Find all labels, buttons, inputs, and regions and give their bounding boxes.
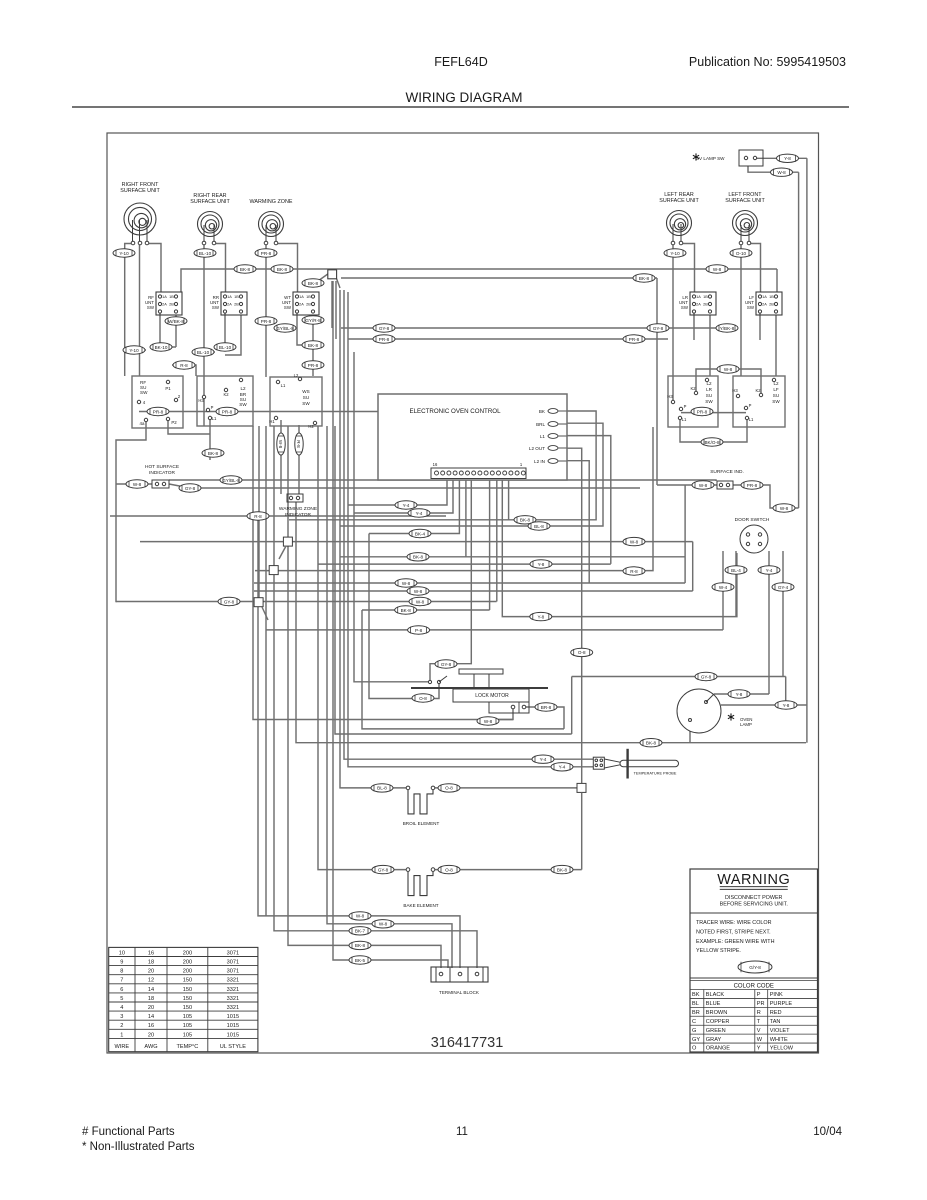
svg-text:W-8: W-8 xyxy=(278,440,283,449)
svg-text:PR-8: PR-8 xyxy=(261,319,272,324)
svg-text:1A: 1A xyxy=(227,295,232,299)
svg-text:* Non-Illustrated Parts: * Non-Illustrated Parts xyxy=(82,1141,195,1153)
svg-text:H2: H2 xyxy=(308,424,314,429)
svg-text:2A: 2A xyxy=(696,303,701,307)
svg-text:WARMING ZONE: WARMING ZONE xyxy=(250,199,293,205)
svg-text:Y-4: Y-4 xyxy=(416,511,423,516)
svg-text:K2: K2 xyxy=(755,388,761,393)
svg-text:P: P xyxy=(749,403,752,408)
svg-text:14: 14 xyxy=(148,1014,154,1020)
svg-text:O-8: O-8 xyxy=(578,650,586,655)
svg-text:BK-8: BK-8 xyxy=(639,276,650,281)
svg-text:3321: 3321 xyxy=(227,996,239,1002)
svg-text:3321: 3321 xyxy=(227,1005,239,1011)
svg-text:3: 3 xyxy=(120,1014,123,1020)
svg-text:SW: SW xyxy=(239,402,247,407)
svg-text:# Functional Parts: # Functional Parts xyxy=(82,1126,175,1138)
svg-text:TEMPERATURE PROBE: TEMPERATURE PROBE xyxy=(634,772,677,776)
svg-text:BL-10: BL-10 xyxy=(197,350,210,355)
svg-text:COLOR CODE: COLOR CODE xyxy=(734,984,774,990)
svg-text:2A: 2A xyxy=(227,303,232,307)
svg-text:NOTED FIRST, STRIPE NEXT.: NOTED FIRST, STRIPE NEXT. xyxy=(696,929,771,935)
svg-text:L1: L1 xyxy=(682,417,687,422)
svg-text:LR: LR xyxy=(706,387,713,392)
svg-text:BLUE: BLUE xyxy=(706,1001,721,1007)
svg-text:BL-10: BL-10 xyxy=(199,251,212,256)
svg-text:HOT SURFACE: HOT SURFACE xyxy=(145,464,179,470)
svg-text:Y-4: Y-4 xyxy=(540,757,547,762)
svg-text:BK-8: BK-8 xyxy=(308,281,319,286)
svg-text:Y/BK-8: Y/BK-8 xyxy=(720,326,735,331)
svg-text:O-8: O-8 xyxy=(445,867,453,872)
svg-text:Y: Y xyxy=(757,1046,761,1052)
svg-text:PR-8: PR-8 xyxy=(697,409,708,414)
svg-text:WIRE: WIRE xyxy=(115,1044,130,1050)
svg-text:LOCK MOTOR: LOCK MOTOR xyxy=(475,693,509,699)
svg-text:1B: 1B xyxy=(169,295,174,299)
svg-text:O-8: O-8 xyxy=(419,696,427,701)
svg-text:ELECTRONIC OVEN CONTROL: ELECTRONIC OVEN CONTROL xyxy=(409,408,501,415)
svg-text:GREEN: GREEN xyxy=(706,1028,726,1034)
svg-text:VIOLET: VIOLET xyxy=(770,1028,790,1034)
svg-text:W-8: W-8 xyxy=(630,539,639,544)
svg-text:BK: BK xyxy=(539,409,546,414)
svg-text:GY/BL-8: GY/BL-8 xyxy=(222,478,240,483)
svg-text:3321: 3321 xyxy=(227,978,239,984)
svg-text:O-8: O-8 xyxy=(445,786,453,791)
svg-text:P: P xyxy=(684,404,687,409)
svg-text:1B: 1B xyxy=(769,295,774,299)
svg-text:14: 14 xyxy=(148,987,154,993)
svg-text:16: 16 xyxy=(433,462,438,467)
svg-text:W-8: W-8 xyxy=(713,267,722,272)
svg-text:PR-8: PR-8 xyxy=(747,483,758,488)
svg-text:BROWN: BROWN xyxy=(706,1010,727,1016)
svg-text:20: 20 xyxy=(148,969,154,975)
svg-text:18: 18 xyxy=(148,960,154,966)
svg-text:LEFT FRONT: LEFT FRONT xyxy=(728,192,762,198)
svg-text:SW: SW xyxy=(681,305,689,310)
svg-text:7: 7 xyxy=(120,978,123,984)
svg-text:RIGHT FRONT: RIGHT FRONT xyxy=(122,182,159,188)
svg-text:W-8: W-8 xyxy=(379,922,388,927)
svg-text:200: 200 xyxy=(183,960,192,966)
svg-text:BEFORE SERVICING UNIT.: BEFORE SERVICING UNIT. xyxy=(720,902,788,908)
svg-text:Y-10: Y-10 xyxy=(129,348,139,353)
svg-text:BK-7: BK-7 xyxy=(355,929,366,934)
svg-text:ORANGE: ORANGE xyxy=(706,1046,731,1052)
svg-text:1015: 1015 xyxy=(227,1023,239,1029)
svg-text:SW: SW xyxy=(284,305,292,310)
svg-text:105: 105 xyxy=(183,1014,192,1020)
svg-text:1A: 1A xyxy=(762,295,767,299)
svg-text:BR: BR xyxy=(692,1010,700,1016)
svg-text:GY-8: GY-8 xyxy=(701,674,712,679)
svg-text:1015: 1015 xyxy=(227,1032,239,1038)
svg-text:1B: 1B xyxy=(703,295,708,299)
svg-text:INDICATOR: INDICATOR xyxy=(149,470,175,476)
svg-text:5: 5 xyxy=(120,996,123,1002)
svg-text:OV LAMP SW: OV LAMP SW xyxy=(695,156,725,161)
svg-text:W-4: W-4 xyxy=(719,585,728,590)
svg-text:BL-8: BL-8 xyxy=(534,524,544,529)
svg-text:RIGHT REAR: RIGHT REAR xyxy=(193,193,226,199)
svg-text:2: 2 xyxy=(120,1023,123,1029)
svg-text:6: 6 xyxy=(120,987,123,993)
svg-text:V: V xyxy=(757,1028,761,1034)
svg-text:RED: RED xyxy=(770,1010,782,1016)
svg-text:Y-4: Y-4 xyxy=(403,503,410,508)
svg-text:Y-10: Y-10 xyxy=(670,251,680,256)
svg-text:W-8: W-8 xyxy=(416,599,425,604)
svg-text:W/BK-8: W/BK-8 xyxy=(168,319,184,324)
svg-text:200: 200 xyxy=(183,969,192,975)
svg-text:W-8: W-8 xyxy=(484,719,493,724)
svg-text:W-8: W-8 xyxy=(402,581,411,586)
svg-text:L1: L1 xyxy=(540,434,546,439)
svg-text:9: 9 xyxy=(120,960,123,966)
svg-text:TEMP°C: TEMP°C xyxy=(176,1044,198,1050)
svg-text:H3: H3 xyxy=(667,394,673,399)
svg-text:TERMINAL BLOCK: TERMINAL BLOCK xyxy=(439,990,480,995)
svg-text:BL-4: BL-4 xyxy=(731,568,741,573)
svg-text:R-8: R-8 xyxy=(296,440,301,448)
svg-text:L1: L1 xyxy=(749,417,754,422)
svg-text:WIRING DIAGRAM: WIRING DIAGRAM xyxy=(406,90,523,105)
svg-text:10: 10 xyxy=(119,950,125,956)
svg-text:SW: SW xyxy=(705,399,713,404)
svg-text:W-8: W-8 xyxy=(780,506,789,511)
svg-text:SU: SU xyxy=(773,393,779,398)
svg-text:GY/BL-8: GY/BL-8 xyxy=(276,326,294,331)
svg-text:BK-8: BK-8 xyxy=(401,608,412,613)
svg-text:W-8: W-8 xyxy=(777,170,786,175)
svg-text:316417731: 316417731 xyxy=(431,1035,504,1051)
svg-text:TRACER WIRE: WIRE COLOR: TRACER WIRE: WIRE COLOR xyxy=(696,920,772,926)
svg-text:G: G xyxy=(692,1028,696,1034)
svg-text:10/04: 10/04 xyxy=(813,1126,842,1138)
svg-text:LF: LF xyxy=(773,387,779,392)
svg-text:W-8: W-8 xyxy=(133,482,142,487)
svg-text:SW: SW xyxy=(747,305,755,310)
svg-text:1A: 1A xyxy=(696,295,701,299)
svg-text:L2 OUT: L2 OUT xyxy=(529,446,545,451)
svg-text:GY-8: GY-8 xyxy=(224,599,235,604)
svg-text:BK-8: BK-8 xyxy=(520,518,531,523)
svg-text:W-8: W-8 xyxy=(356,914,365,919)
svg-text:G/Y-8: G/Y-8 xyxy=(749,965,761,970)
svg-text:INDICATOR: INDICATOR xyxy=(285,512,311,518)
svg-text:P: P xyxy=(757,992,761,998)
svg-text:PR-8: PR-8 xyxy=(379,337,390,342)
svg-text:SURFACE UNIT: SURFACE UNIT xyxy=(120,188,160,194)
svg-text:P1: P1 xyxy=(165,386,171,391)
svg-text:BK-8: BK-8 xyxy=(277,267,288,272)
svg-text:SW: SW xyxy=(772,399,780,404)
svg-text:BK/O-8: BK/O-8 xyxy=(704,440,720,445)
svg-text:BRL: BRL xyxy=(536,422,545,427)
svg-text:2A: 2A xyxy=(299,303,304,307)
svg-text:EXAMPLE: GREEN WIRE WITH: EXAMPLE: GREEN WIRE WITH xyxy=(696,939,775,945)
svg-text:PR: PR xyxy=(757,1001,765,1007)
svg-text:TAN: TAN xyxy=(770,1019,781,1025)
svg-text:BLACK: BLACK xyxy=(706,992,725,998)
svg-text:3071: 3071 xyxy=(227,950,239,956)
svg-text:PURPLE: PURPLE xyxy=(770,1001,793,1007)
svg-text:4: 4 xyxy=(120,1005,123,1011)
svg-text:BK-8: BK-8 xyxy=(646,741,657,746)
svg-text:SURFACE IND.: SURFACE IND. xyxy=(710,469,744,475)
svg-text:L2: L2 xyxy=(294,373,299,378)
svg-text:GY: GY xyxy=(692,1037,700,1043)
svg-text:1A: 1A xyxy=(299,295,304,299)
svg-text:GY-8: GY-8 xyxy=(378,867,389,872)
svg-text:SURFACE UNIT: SURFACE UNIT xyxy=(190,199,230,205)
svg-text:SW: SW xyxy=(147,305,155,310)
svg-text:DOOR SWITCH: DOOR SWITCH xyxy=(735,517,770,523)
svg-text:2B: 2B xyxy=(769,303,774,307)
svg-text:2B: 2B xyxy=(703,303,708,307)
svg-text:BROIL ELEMENT: BROIL ELEMENT xyxy=(403,821,440,826)
svg-text:150: 150 xyxy=(183,1005,192,1011)
svg-text:BK-8: BK-8 xyxy=(240,267,251,272)
svg-text:1: 1 xyxy=(120,1032,123,1038)
svg-text:BK-8: BK-8 xyxy=(208,451,219,456)
svg-text:SU: SU xyxy=(303,395,309,400)
svg-text:L2: L2 xyxy=(240,386,246,391)
svg-text:PR-8: PR-8 xyxy=(308,363,319,368)
svg-text:Y-8: Y-8 xyxy=(784,156,791,161)
svg-text:BK-4: BK-4 xyxy=(415,531,426,536)
svg-text:SURFACE UNIT: SURFACE UNIT xyxy=(725,198,765,204)
svg-text:Y-10: Y-10 xyxy=(119,251,129,256)
svg-text:DISCONNECT POWER: DISCONNECT POWER xyxy=(725,895,783,901)
svg-text:P-8: P-8 xyxy=(415,628,423,633)
svg-text:1B: 1B xyxy=(234,295,239,299)
svg-text:R-8: R-8 xyxy=(254,514,262,519)
svg-text:LAMP: LAMP xyxy=(740,722,752,727)
svg-text:16: 16 xyxy=(148,950,154,956)
svg-text:BL-8: BL-8 xyxy=(377,786,387,791)
svg-text:K2: K2 xyxy=(690,386,696,391)
svg-text:150: 150 xyxy=(183,996,192,1002)
svg-text:150: 150 xyxy=(183,987,192,993)
svg-text:11: 11 xyxy=(456,1126,468,1138)
svg-text:WS: WS xyxy=(302,389,309,394)
svg-text:Y-4: Y-4 xyxy=(559,765,566,770)
svg-text:FEFL64D: FEFL64D xyxy=(434,55,488,69)
svg-text:WARMING ZONE: WARMING ZONE xyxy=(279,506,317,512)
svg-text:PR-8: PR-8 xyxy=(222,409,233,414)
svg-text:R: R xyxy=(757,1010,761,1016)
svg-text:16: 16 xyxy=(148,1023,154,1029)
svg-text:PR-8: PR-8 xyxy=(153,409,164,414)
svg-text:W-8: W-8 xyxy=(724,367,733,372)
svg-text:K2: K2 xyxy=(223,392,229,397)
svg-text:Y-8: Y-8 xyxy=(537,614,544,619)
svg-text:GY-8: GY-8 xyxy=(441,662,452,667)
svg-text:18: 18 xyxy=(148,996,154,1002)
svg-text:105: 105 xyxy=(183,1023,192,1029)
svg-text:2B: 2B xyxy=(169,303,174,307)
svg-text:BK-10: BK-10 xyxy=(155,345,168,350)
svg-text:2A: 2A xyxy=(762,303,767,307)
svg-text:BR-8: BR-8 xyxy=(541,705,552,710)
svg-text:GRAY: GRAY xyxy=(706,1037,722,1043)
svg-text:200: 200 xyxy=(183,950,192,956)
svg-text:YELLOW: YELLOW xyxy=(770,1046,794,1052)
svg-text:BK-8: BK-8 xyxy=(557,867,568,872)
svg-text:SW: SW xyxy=(212,305,220,310)
svg-text:BAKE ELEMENT: BAKE ELEMENT xyxy=(403,903,438,908)
svg-text:2A: 2A xyxy=(162,303,167,307)
svg-text:1B: 1B xyxy=(306,295,311,299)
svg-text:SW: SW xyxy=(140,390,148,395)
svg-text:2B: 2B xyxy=(306,303,311,307)
svg-text:BK: BK xyxy=(692,992,700,998)
svg-text:Y-8: Y-8 xyxy=(736,692,743,697)
svg-text:4a: 4a xyxy=(140,421,145,426)
svg-text:BK-5: BK-5 xyxy=(355,958,366,963)
svg-text:8: 8 xyxy=(120,969,123,975)
svg-text:12: 12 xyxy=(148,978,154,984)
svg-text:T: T xyxy=(757,1019,761,1025)
svg-text:W: W xyxy=(757,1037,763,1043)
svg-text:L1: L1 xyxy=(212,416,217,421)
svg-text:L2 IN: L2 IN xyxy=(534,459,545,464)
svg-text:2B: 2B xyxy=(234,303,239,307)
svg-text:PINK: PINK xyxy=(770,992,783,998)
svg-text:GY-8: GY-8 xyxy=(379,326,390,331)
svg-text:YELLOW STRIPE.: YELLOW STRIPE. xyxy=(696,948,741,954)
svg-text:1015: 1015 xyxy=(227,1014,239,1020)
svg-text:Y-8: Y-8 xyxy=(538,562,545,567)
svg-text:Y-4: Y-4 xyxy=(766,568,773,573)
svg-text:GY-8: GY-8 xyxy=(653,326,664,331)
svg-text:3071: 3071 xyxy=(227,960,239,966)
svg-text:Y-8: Y-8 xyxy=(783,703,790,708)
svg-text:BK-8: BK-8 xyxy=(413,555,424,560)
svg-text:20: 20 xyxy=(148,1005,154,1011)
svg-text:W-8: W-8 xyxy=(414,589,423,594)
svg-text:COPPER: COPPER xyxy=(706,1019,730,1025)
svg-text:LEFT REAR: LEFT REAR xyxy=(664,192,694,198)
svg-text:W-8: W-8 xyxy=(699,483,708,488)
svg-text:WHITE: WHITE xyxy=(770,1037,788,1043)
svg-text:P: P xyxy=(211,405,214,410)
svg-text:PR-8: PR-8 xyxy=(261,251,272,256)
svg-text:AWG: AWG xyxy=(144,1044,157,1050)
svg-text:1A: 1A xyxy=(162,295,167,299)
svg-text:2: 2 xyxy=(178,394,181,399)
svg-text:GY-8: GY-8 xyxy=(185,486,196,491)
svg-text:P2: P2 xyxy=(171,420,177,425)
svg-text:20: 20 xyxy=(148,1032,154,1038)
svg-text:3071: 3071 xyxy=(227,969,239,975)
svg-text:H3: H3 xyxy=(198,398,204,403)
svg-text:BL: BL xyxy=(692,1001,699,1007)
svg-text:3321: 3321 xyxy=(227,987,239,993)
svg-text:4: 4 xyxy=(143,400,146,405)
svg-text:L1: L1 xyxy=(281,383,286,388)
svg-text:R-8: R-8 xyxy=(180,363,188,368)
svg-text:O: O xyxy=(692,1046,697,1052)
svg-text:SURFACE UNIT: SURFACE UNIT xyxy=(659,198,699,204)
svg-text:105: 105 xyxy=(183,1032,192,1038)
svg-text:H1: H1 xyxy=(269,419,275,424)
svg-text:Publication No: 5995419503: Publication No: 5995419503 xyxy=(689,55,846,69)
svg-text:PR-8: PR-8 xyxy=(629,337,640,342)
svg-text:SU: SU xyxy=(706,393,712,398)
svg-text:H3: H3 xyxy=(732,388,738,393)
svg-text:BK-8: BK-8 xyxy=(355,943,366,948)
svg-text:SW: SW xyxy=(302,401,310,406)
svg-text:BK-8: BK-8 xyxy=(308,343,319,348)
svg-text:BL-10: BL-10 xyxy=(219,345,232,350)
svg-text:UL STYLE: UL STYLE xyxy=(220,1044,246,1050)
svg-text:C: C xyxy=(692,1019,696,1025)
svg-text:O-10: O-10 xyxy=(736,251,747,256)
svg-text:GY/R-8: GY/R-8 xyxy=(305,318,321,323)
svg-text:GY-4: GY-4 xyxy=(778,585,789,590)
svg-text:R-8: R-8 xyxy=(630,569,638,574)
svg-text:150: 150 xyxy=(183,978,192,984)
svg-text:WARNING: WARNING xyxy=(717,872,790,888)
